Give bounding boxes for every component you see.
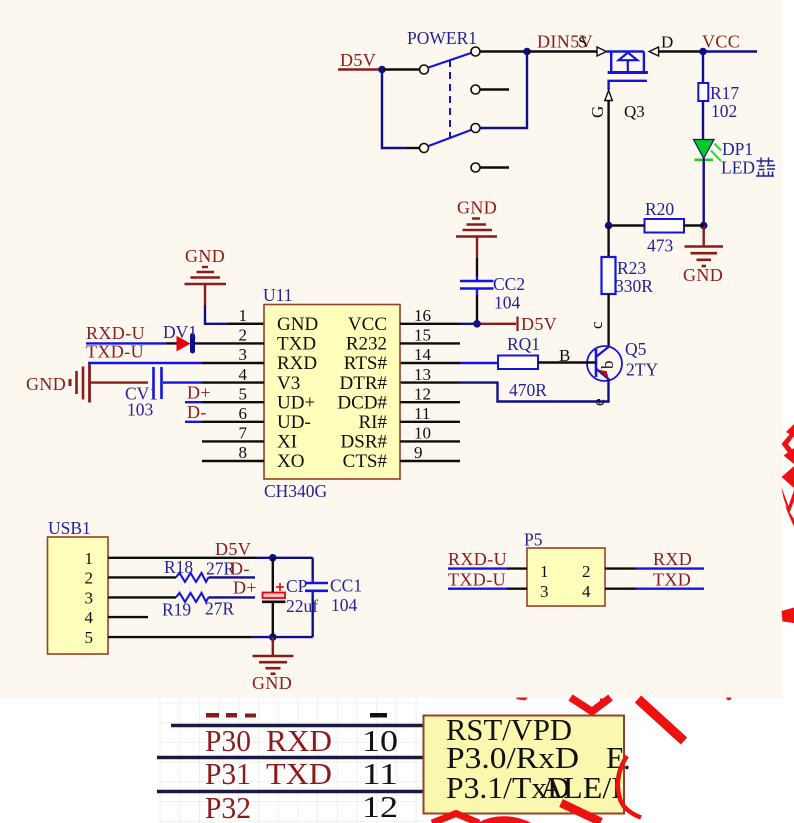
svg-text:4: 4: [582, 582, 591, 601]
ground symbol (above U11 pin1): [185, 246, 227, 305]
capacitor CP electrolytic: [262, 558, 286, 637]
svg-text:RQ1: RQ1: [507, 334, 540, 354]
svg-text:TXD-U: TXD-U: [86, 342, 144, 362]
wire P5 pin4 to TXD: [605, 588, 704, 590]
svg-text:TXD-U: TXD-U: [448, 570, 506, 590]
wire GND to pin1: [205, 305, 264, 324]
wire pin12 stub: [400, 401, 460, 403]
wire LED to GND junction: [703, 159, 705, 226]
svg-text:473: 473: [647, 236, 674, 256]
svg-text:RI#: RI#: [359, 412, 388, 433]
wire to switch pole1: [382, 68, 420, 70]
capacitor CC2: [460, 276, 494, 295]
svg-text:POWER1: POWER1: [407, 28, 477, 48]
wire pin8 XO: [202, 460, 264, 462]
label R20: [645, 199, 674, 219]
svg-text:UD-: UD-: [277, 412, 311, 433]
label CC1: [330, 576, 362, 596]
svg-text:CC1: CC1: [330, 576, 362, 596]
svg-text:GND: GND: [185, 246, 225, 266]
fragment pin name EA (partial): [606, 740, 631, 776]
svg-text:D5V: D5V: [215, 539, 251, 559]
red stamp bar (right edge lower): [782, 608, 794, 624]
svg-text:ALE/I: ALE/I: [540, 770, 622, 805]
transistor Q5: [587, 346, 622, 381]
pin label S: [578, 33, 587, 52]
net label RXD-U: [86, 323, 145, 343]
red ellipse arc: [618, 756, 641, 818]
net label D5V (pin16): [521, 314, 557, 334]
pin names U11 right column: [337, 314, 387, 472]
wire GND to CV1: [90, 381, 149, 383]
svg-text:3: 3: [85, 589, 94, 608]
svg-text:P32: P32: [205, 790, 251, 823]
svg-text:USB1: USB1: [48, 518, 91, 538]
svg-text:RXD: RXD: [266, 723, 332, 758]
fragment label P31: [205, 756, 251, 791]
net label D- (pin6): [187, 402, 207, 422]
wire pin9 stub: [400, 460, 460, 462]
svg-text:DP1: DP1: [722, 139, 753, 159]
svg-text:5: 5: [239, 384, 248, 403]
svg-text:c: c: [587, 321, 606, 329]
wire gate junction to R20: [609, 224, 645, 226]
ground symbol (right of R20): [685, 226, 724, 267]
svg-text:4: 4: [85, 608, 94, 627]
svg-text:R18: R18: [164, 557, 193, 577]
svg-text:13: 13: [414, 365, 431, 384]
label R23: [617, 258, 646, 278]
svg-text:TXD: TXD: [277, 334, 316, 355]
net label RXD: [653, 549, 692, 569]
svg-text:R20: R20: [645, 199, 674, 219]
svg-text:15: 15: [414, 326, 431, 345]
ground symbol (left, CV1): [26, 363, 90, 403]
label Q3: [624, 102, 645, 121]
pin numbers USB1: [85, 549, 94, 647]
svg-text:3: 3: [540, 582, 549, 601]
label R17: [710, 83, 739, 103]
svg-text:D+: D+: [187, 383, 211, 403]
svg-text:D-: D-: [230, 559, 250, 579]
fragment pin name P3.1/TxD: [446, 770, 570, 805]
resistor RQ1: [498, 356, 538, 370]
wire RXD-U to DV1: [86, 342, 177, 344]
connector P5 body: [527, 548, 605, 606]
connector USB1 body: [48, 537, 109, 654]
label R19: [162, 600, 191, 620]
svg-text:11: 11: [362, 756, 398, 791]
value 27R (R19): [205, 599, 235, 619]
value 104 (CC1): [331, 595, 358, 615]
wire switch left loop: [382, 70, 420, 149]
net label GND (USB): [252, 673, 292, 693]
svg-text:103: 103: [127, 400, 154, 420]
svg-text:102: 102: [711, 101, 737, 121]
svg-text:P5: P5: [524, 530, 543, 550]
fragment pin name P3.0/RxD: [446, 740, 579, 775]
svg-text:XI: XI: [277, 432, 297, 453]
transistor Q3 P-MOSFET: [597, 47, 659, 101]
svg-text:CTS#: CTS#: [343, 451, 388, 472]
svg-text:P31: P31: [205, 756, 251, 791]
svg-text:9: 9: [414, 443, 423, 462]
label R18: [164, 557, 193, 577]
pin label D: [661, 33, 673, 52]
value 103: [127, 400, 154, 420]
svg-text:DV1: DV1: [163, 322, 197, 342]
svg-text:GND: GND: [252, 673, 292, 693]
svg-text:RXD-U: RXD-U: [448, 549, 507, 569]
fragment label P32: [205, 790, 251, 823]
svg-text:GND: GND: [457, 198, 497, 218]
value 2TY: [626, 360, 658, 380]
switch POWER1: [407, 28, 509, 172]
svg-text:GND: GND: [277, 314, 318, 335]
ground symbol (above CC2): [456, 198, 497, 259]
svg-text:RXD-U: RXD-U: [86, 323, 145, 343]
wire USB pin1 to D5V junction: [108, 557, 313, 559]
wire pin16 VCC/D5V: [400, 317, 518, 332]
svg-text:LED: LED: [721, 158, 755, 178]
label DV1: [163, 322, 197, 342]
node junction USB GND: [269, 633, 277, 641]
svg-text:UD+: UD+: [277, 392, 315, 413]
svg-text:VCC: VCC: [702, 32, 740, 52]
wire CC2 to pin16 junction: [476, 295, 478, 324]
svg-text:V3: V3: [277, 373, 300, 394]
svg-text:R23: R23: [617, 258, 646, 278]
resistor R23: [602, 257, 616, 294]
svg-text:RXD: RXD: [277, 353, 317, 374]
wire USB pin4 stub: [108, 616, 148, 618]
svg-text:TXD: TXD: [266, 756, 332, 791]
value 470R: [509, 380, 547, 400]
wire DIN5V to Q3 source: [527, 50, 597, 52]
svg-text:12: 12: [414, 384, 431, 403]
svg-text:7: 7: [239, 424, 248, 443]
red blob (bottom): [478, 816, 531, 823]
pin names U11 left column: [277, 314, 318, 472]
label CC2: [493, 274, 525, 294]
fragment wire row3: [157, 790, 424, 793]
value 27R (R18): [206, 559, 236, 579]
value 102: [711, 101, 737, 121]
svg-text:470R: 470R: [509, 380, 547, 400]
wire GND to CC2: [476, 258, 478, 276]
fragment partial top row glyph bottoms: [206, 713, 387, 718]
svg-text:DTR#: DTR#: [340, 373, 388, 394]
fragment wire row1: [171, 724, 424, 727]
node junction USB D5V: [269, 554, 277, 562]
pin label c (rotated): [587, 321, 606, 329]
svg-text:DCD#: DCD#: [337, 392, 387, 413]
svg-text:2: 2: [85, 569, 94, 588]
svg-text:b: b: [598, 361, 617, 370]
wire pin15 stub: [400, 342, 460, 344]
wire pin10 stub: [400, 440, 460, 442]
wire pin13 to Q5 emitter: [400, 380, 609, 402]
svg-text:D5V: D5V: [340, 50, 376, 70]
fragment pin name ALE (overlap): [540, 770, 622, 805]
label RQ1: [507, 334, 540, 354]
fragment wire row2: [157, 756, 424, 759]
svg-text:1: 1: [239, 306, 248, 325]
svg-text:GND: GND: [683, 265, 723, 285]
wire RXD-U to P5 pin1: [448, 567, 527, 569]
wire D5V stub: [338, 68, 382, 70]
svg-text:104: 104: [331, 595, 358, 615]
wire R18 to D- stub: [209, 576, 256, 578]
label USB1: [48, 518, 91, 538]
ground symbol (USB bottom): [253, 637, 294, 674]
label LED蓝: [721, 158, 775, 178]
net label D+ (pin5): [187, 383, 211, 403]
svg-text:D-: D-: [187, 402, 207, 422]
net label VCC: [702, 32, 757, 52]
svg-text:10: 10: [414, 424, 431, 443]
svg-text:e: e: [589, 398, 608, 406]
pin label e (rotated): [589, 398, 608, 406]
magnified fragment grid: [158, 698, 424, 823]
wire right vertical to pole2: [480, 52, 527, 129]
wire RQ1 to Q5 base: [538, 361, 596, 363]
node junction VCC: [699, 48, 707, 56]
svg-text:2: 2: [239, 326, 248, 345]
svg-text:XO: XO: [277, 451, 304, 472]
value 104: [494, 293, 521, 313]
svg-text:8: 8: [239, 443, 248, 462]
wire DV1 to pin2: [195, 342, 264, 344]
svg-text:2: 2: [582, 562, 591, 581]
fragment pin name RST/VPD: [446, 712, 572, 747]
wire pin11 stub: [400, 421, 460, 423]
svg-text:11: 11: [414, 404, 430, 423]
fragment label P30: [205, 723, 251, 758]
value 22uf: [286, 596, 318, 616]
net label GND (right): [683, 265, 723, 285]
svg-text:GND: GND: [26, 374, 66, 394]
fragment label RXD: [266, 723, 332, 758]
net label DIN5V: [537, 32, 593, 52]
pin label G (rotated): [588, 106, 607, 118]
wire Q3 gate down: [607, 101, 609, 226]
svg-text:U11: U11: [263, 285, 293, 305]
net label D5V (USB): [215, 539, 251, 559]
value 330R: [615, 276, 653, 296]
fragment pin number 11: [362, 756, 398, 791]
wire TXD-U to P5 pin3: [448, 588, 527, 590]
net label D+ (USB): [233, 578, 257, 598]
label P5: [524, 530, 543, 550]
svg-text:RXD: RXD: [653, 549, 692, 569]
LED DP1: [694, 140, 722, 162]
red mark dash (cream edge x517): [517, 698, 529, 701]
svg-text:D+: D+: [233, 578, 257, 598]
resistor R20: [645, 219, 685, 233]
svg-text:CH340G: CH340G: [264, 481, 328, 501]
red caret mark: [432, 814, 479, 823]
node junction pin16/CC2: [473, 320, 481, 328]
wire R19 to D+ stub: [209, 596, 256, 598]
wire VCC down to R17: [702, 52, 704, 84]
svg-text:6: 6: [239, 404, 248, 423]
node junction D5V: [378, 66, 386, 74]
label U11: [263, 285, 293, 305]
fragment pin number 12: [362, 789, 398, 823]
svg-text:CP: CP: [286, 576, 308, 596]
svg-text:CC2: CC2: [493, 274, 525, 294]
svg-text:1: 1: [540, 562, 549, 581]
svg-text:P30: P30: [205, 723, 251, 758]
svg-text:S: S: [578, 33, 587, 52]
net label TXD-U: [86, 342, 144, 362]
net label D5V (top left): [340, 50, 376, 70]
node junction gate/R20/R23: [605, 222, 613, 230]
fragment chip body (yellow): [424, 716, 625, 814]
red check V mark: [571, 698, 611, 712]
svg-text:VCC: VCC: [348, 314, 387, 335]
svg-text:Q3: Q3: [624, 102, 645, 121]
fragment pin number 10: [362, 723, 398, 758]
wire D+ to pin5: [185, 401, 264, 403]
wire pole1 top to DIN5V junction: [480, 50, 527, 52]
wire Q3 drain to VCC: [659, 50, 703, 52]
svg-text:G: G: [588, 106, 607, 118]
net label RXD-U (P5): [448, 549, 507, 569]
label B: [559, 346, 570, 365]
label Q5: [625, 339, 647, 359]
wire R17 to LED: [702, 101, 704, 140]
wire pin14 to RQ1: [400, 362, 498, 364]
svg-text:Q5: Q5: [625, 339, 647, 359]
svg-text:1: 1: [85, 549, 94, 568]
wire TXD-U to pin3: [88, 362, 264, 364]
svg-text:RTS#: RTS#: [344, 353, 388, 374]
label CH340G: [264, 481, 328, 501]
svg-text:10: 10: [362, 723, 398, 758]
wire USB pin5 to GND junction: [108, 636, 313, 638]
diode DV1: [177, 336, 193, 352]
pin numbers U11 left: [239, 306, 248, 462]
red diagonal (bottom): [561, 803, 601, 822]
svg-text:R19: R19: [162, 600, 191, 620]
resistor R19: [176, 593, 209, 602]
svg-text:DSR#: DSR#: [341, 432, 388, 453]
net label D- (USB): [230, 559, 250, 579]
svg-text:TXD: TXD: [653, 570, 691, 590]
svg-text:4: 4: [239, 365, 248, 384]
svg-text:16: 16: [414, 306, 431, 325]
svg-text:330R: 330R: [615, 276, 653, 296]
wire P5 pin2 to RXD: [605, 567, 704, 569]
net label TXD: [653, 570, 691, 590]
red stamp spikes (right edge): [782, 424, 794, 527]
svg-text:R17: R17: [710, 83, 739, 103]
wire USB pin2: [108, 576, 176, 578]
svg-text:D: D: [661, 33, 673, 52]
wire CV1 to pin4: [163, 381, 264, 383]
resistor R17: [698, 83, 708, 101]
wire R20 to LED junction: [684, 224, 704, 226]
wire pin7 XI: [202, 440, 264, 442]
svg-text:27R: 27R: [205, 599, 235, 619]
svg-text:3: 3: [239, 345, 248, 364]
net label TXD-U (P5): [448, 570, 506, 590]
wire USB pin3: [108, 596, 176, 598]
label CP: [286, 576, 308, 596]
node junction DIN5V: [523, 48, 531, 56]
node junction LED/R20/GND: [700, 222, 708, 230]
svg-text:D5V: D5V: [521, 314, 557, 334]
pin numbers U11 right: [414, 306, 432, 462]
wire D- to pin6: [185, 421, 264, 423]
op-amp U11 CH340G body: [264, 305, 400, 480]
capacitor CV1: [154, 367, 162, 399]
red diagonal stroke (big): [638, 699, 684, 741]
capacitor CC1: [305, 558, 328, 637]
wire R23 to Q5 collector: [607, 294, 609, 347]
svg-text:14: 14: [414, 345, 432, 364]
label CV1: [125, 384, 158, 404]
value 473: [647, 236, 674, 256]
svg-text:R232: R232: [346, 334, 387, 355]
red mark sliver (x600): [600, 699, 610, 708]
wire junction to R23: [607, 226, 609, 258]
pin numbers P5: [540, 562, 591, 601]
red mark dash (cream edge x727): [727, 698, 732, 701]
svg-text:2TY: 2TY: [626, 360, 658, 380]
resistor R18: [176, 573, 209, 582]
label DP1: [722, 139, 753, 159]
svg-text:104: 104: [494, 293, 521, 313]
fragment label TXD: [266, 756, 332, 791]
svg-text:12: 12: [362, 789, 398, 823]
svg-text:5: 5: [85, 628, 94, 647]
